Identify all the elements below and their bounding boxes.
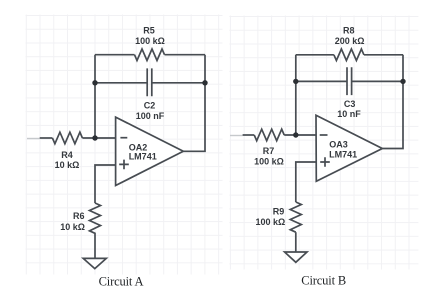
wire: capacitor row right xyxy=(152,82,205,84)
junction node B cap-left xyxy=(293,79,298,84)
ground B xyxy=(285,252,307,262)
svg-text:C2: C2 xyxy=(144,101,156,111)
svg-text:200 kΩ: 200 kΩ xyxy=(335,36,365,46)
wire: top row right segment xyxy=(165,54,206,56)
svg-text:100 kΩ: 100 kΩ xyxy=(255,217,285,227)
wire: to inverting input xyxy=(284,134,316,136)
ground A xyxy=(83,258,106,268)
minus sign OA3 xyxy=(320,134,328,136)
wire: to ground xyxy=(295,232,297,252)
wire: input stub faded tail xyxy=(230,135,243,137)
svg-text:Circuit A: Circuit A xyxy=(99,275,144,289)
resistor R4 xyxy=(52,132,82,144)
wire: to ground xyxy=(94,236,96,258)
resistor R8 xyxy=(334,49,364,61)
svg-text:100 kΩ: 100 kΩ xyxy=(135,36,165,46)
junction node B cap-right xyxy=(400,79,405,84)
svg-text:10 kΩ: 10 kΩ xyxy=(60,222,85,232)
svg-text:R8: R8 xyxy=(343,25,355,35)
wire: input stub faded tail xyxy=(27,138,40,140)
svg-text:Circuit B: Circuit B xyxy=(301,274,346,288)
grid panel A xyxy=(26,15,223,275)
svg-text:R4: R4 xyxy=(61,150,73,160)
capacitor C3 xyxy=(347,67,352,95)
resistor R7 xyxy=(254,129,284,141)
junction node A input xyxy=(92,135,97,140)
svg-text:R9: R9 xyxy=(273,206,285,216)
wire: right vertical + output xyxy=(183,55,205,152)
capacitor C2 xyxy=(147,68,152,96)
wire: feedback left vertical xyxy=(94,55,96,138)
svg-text:LM741: LM741 xyxy=(329,150,357,160)
wire: capacitor row left xyxy=(296,80,347,82)
wire: capacitor row right xyxy=(352,80,403,82)
wire: non-inverting input xyxy=(296,162,316,202)
minus sign OA2 xyxy=(120,137,127,139)
wire: feedback left vertical xyxy=(295,55,297,135)
resistor R5 xyxy=(135,49,165,61)
svg-text:R7: R7 xyxy=(263,146,275,156)
wire: non-inverting input xyxy=(95,165,116,203)
junction node A cap-right xyxy=(202,80,207,85)
op-amp OA3 xyxy=(316,115,382,181)
svg-text:10 nF: 10 nF xyxy=(337,109,361,119)
junction node B input xyxy=(293,132,298,137)
svg-text:LM741: LM741 xyxy=(129,151,157,161)
plus sign OA3 xyxy=(320,157,330,167)
svg-text:100 kΩ: 100 kΩ xyxy=(254,156,284,166)
svg-text:C3: C3 xyxy=(344,99,356,109)
wire: top row left segment xyxy=(95,54,135,56)
wire: input stub xyxy=(40,137,53,139)
svg-text:R6: R6 xyxy=(73,211,85,221)
resistor R9 xyxy=(290,202,301,232)
resistor R6 xyxy=(90,203,101,236)
svg-text:10 kΩ: 10 kΩ xyxy=(55,160,80,170)
wire: top row right segment xyxy=(364,54,403,56)
wire: input stub xyxy=(243,134,255,136)
wire: right vertical + output xyxy=(382,55,403,149)
svg-text:100 nF: 100 nF xyxy=(136,111,165,121)
plus sign OA2 xyxy=(119,160,129,170)
svg-text:OA3: OA3 xyxy=(329,140,348,150)
grid panel B xyxy=(229,16,418,270)
wire: top row left segment xyxy=(296,54,334,56)
svg-text:R5: R5 xyxy=(143,25,155,35)
op-amp OA2 xyxy=(116,117,184,185)
wire: capacitor row left xyxy=(95,82,147,84)
wire: to inverting input xyxy=(82,137,115,139)
junction node A cap-left xyxy=(92,80,97,85)
